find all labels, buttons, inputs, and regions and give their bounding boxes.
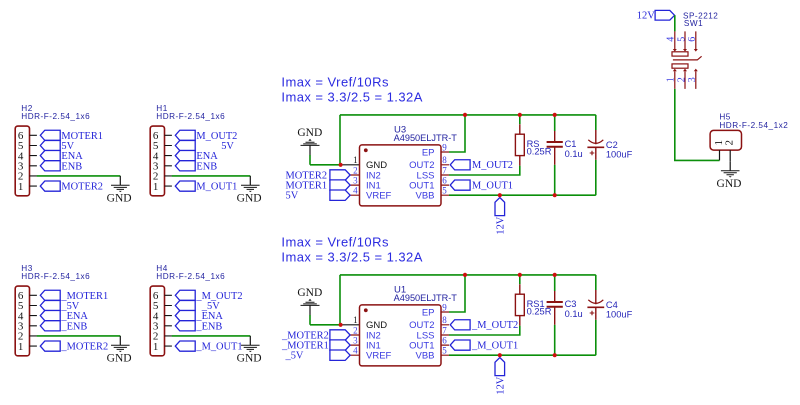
wire pin 2 to ground [172, 175, 251, 177]
svg-text:6: 6 [687, 37, 698, 42]
svg-text:3: 3 [353, 176, 358, 186]
resistor RS1 0.25R [515, 284, 551, 325]
svg-text:VBB: VBB [415, 191, 434, 202]
ground [107, 176, 132, 205]
global label _MOTER1 [281, 340, 350, 352]
wire ground to pin 1 node [310, 315, 341, 325]
global label _MOTER2 [281, 330, 350, 342]
svg-text:_ENB: _ENB [60, 321, 87, 332]
connector H3 [15, 264, 90, 356]
power label 12V input [637, 10, 675, 21]
svg-text:1: 1 [353, 315, 358, 325]
connector H2 [15, 104, 90, 196]
connector H1 [150, 104, 225, 196]
global label _ENB [40, 321, 87, 333]
wire VBB bus [449, 194, 596, 196]
svg-text:1: 1 [665, 77, 676, 82]
svg-text:4: 4 [353, 186, 358, 196]
svg-text:12V: 12V [495, 216, 506, 234]
svg-text:5V: 5V [221, 141, 234, 152]
svg-text:6: 6 [442, 176, 447, 186]
junction [553, 193, 557, 197]
svg-text:M_OUT1: M_OUT1 [196, 182, 237, 193]
global label _5V [40, 300, 79, 312]
junction [339, 163, 343, 167]
svg-text:4: 4 [353, 346, 358, 356]
svg-text:A4950ELJTR-T: A4950ELJTR-T [394, 293, 458, 303]
wire pin 2 to ground [37, 175, 121, 177]
global label MOTER1 [286, 180, 351, 192]
junction [553, 113, 557, 117]
junction [498, 353, 502, 357]
global label 5V [40, 140, 74, 152]
power label 12V [495, 198, 506, 235]
svg-text:HDR-F-2.54_1x6: HDR-F-2.54_1x6 [21, 112, 90, 121]
svg-text:_ENB: _ENB [195, 321, 222, 332]
svg-text:2: 2 [676, 77, 687, 82]
wire C top and bottom [554, 115, 556, 195]
svg-text:0.1u: 0.1u [565, 309, 583, 319]
wire 12V to switch pin 4 [674, 15, 676, 31]
svg-text:1: 1 [353, 155, 358, 165]
junction [553, 353, 557, 357]
resistor RS 0.25R [515, 124, 551, 165]
note current formula [281, 74, 422, 104]
svg-text:_5V: _5V [285, 351, 304, 362]
global label _5V [175, 300, 220, 312]
svg-text:HDR-F-2.54_1x6: HDR-F-2.54_1x6 [156, 272, 225, 281]
global label _ENB [175, 321, 222, 333]
svg-text:A4950ELJTR-T: A4950ELJTR-T [394, 133, 458, 143]
wire EP to top bus [449, 275, 465, 312]
svg-text:Imax = Vref/10Rs: Imax = Vref/10Rs [281, 234, 389, 249]
svg-text:9: 9 [442, 142, 447, 152]
global label _M_OUT1 [175, 341, 242, 353]
svg-text:0.1u: 0.1u [565, 149, 583, 159]
svg-text:12V: 12V [495, 376, 506, 394]
junction [463, 113, 467, 117]
svg-text:8: 8 [442, 155, 447, 165]
ground [297, 287, 322, 315]
svg-text:MOTER2: MOTER2 [61, 182, 103, 193]
svg-text:ENB: ENB [196, 161, 217, 172]
wire C top and bottom [554, 275, 556, 355]
global label M_OUT1 [175, 181, 237, 193]
svg-text:EP: EP [422, 147, 435, 158]
switch SW1 SP-2212 [665, 11, 718, 89]
ground [237, 176, 262, 205]
svg-text:HDR-F-2.54_1x6: HDR-F-2.54_1x6 [156, 112, 225, 121]
wire pin 2 to ground [37, 335, 121, 337]
svg-text:9: 9 [442, 302, 447, 312]
svg-text:C3: C3 [565, 299, 577, 309]
connector H5 [710, 113, 788, 162]
svg-text:0.25R: 0.25R [527, 147, 552, 157]
junction [463, 273, 467, 277]
svg-text:VREF: VREF [366, 191, 392, 202]
global label MOTER2 [40, 181, 103, 193]
svg-text:2: 2 [353, 325, 358, 335]
svg-text:5: 5 [442, 186, 447, 196]
wire right vertical [595, 115, 597, 195]
junction [553, 273, 557, 277]
wire LSS to RS [449, 326, 520, 335]
svg-text:ENB: ENB [61, 161, 82, 172]
svg-text:100uF: 100uF [606, 149, 633, 159]
svg-text:100uF: 100uF [606, 309, 633, 319]
wire ground to pin 1 node [310, 155, 341, 165]
svg-text:4: 4 [665, 37, 676, 42]
capacitor C3 0.1u [547, 291, 583, 325]
global label _MOTER2 [40, 341, 108, 353]
global label _ENA [40, 311, 88, 323]
svg-text:Imax = Vref/10Rs: Imax = Vref/10Rs [281, 74, 389, 89]
junction [518, 273, 522, 277]
svg-text:_M_OUT2: _M_OUT2 [471, 320, 518, 331]
ic U1 A4950ELJTR-T motor driver [341, 284, 458, 366]
wire RS top [519, 275, 521, 284]
global label _ENA [175, 311, 223, 323]
global label M_OUT2 [450, 160, 513, 171]
svg-text:5: 5 [676, 37, 687, 42]
svg-text:12V: 12V [637, 11, 656, 22]
capacitor C2 100uF polarized [587, 130, 632, 160]
capacitor C4 100uF polarized [587, 290, 632, 320]
svg-text:Imax = 3.3/2.5 = 1.32A: Imax = 3.3/2.5 = 1.32A [281, 90, 422, 105]
wire switch pin 1 to H5 pin 1 [675, 89, 720, 160]
svg-text:SW1: SW1 [684, 19, 703, 28]
ground [297, 127, 322, 155]
ground [717, 161, 742, 190]
svg-text:5V: 5V [286, 191, 299, 202]
junction [498, 193, 502, 197]
global label ENB [40, 161, 82, 173]
global label _M_OUT2 [175, 290, 242, 302]
svg-text:_M_OUT1: _M_OUT1 [471, 341, 518, 352]
svg-text:5: 5 [442, 346, 447, 356]
wire RS top [519, 115, 521, 124]
svg-text:8: 8 [442, 315, 447, 325]
svg-text:_MOTER2: _MOTER2 [60, 342, 108, 353]
svg-text:HDR-F-2.54_1x6: HDR-F-2.54_1x6 [21, 272, 90, 281]
global label M_OUT2 [175, 130, 237, 142]
global label M_OUT1 [450, 180, 513, 191]
wire EP to top bus [449, 115, 465, 152]
wire top bus [340, 115, 596, 165]
global label ENA [175, 151, 218, 163]
global label 5V [286, 190, 351, 202]
global label MOTER1 [40, 130, 103, 142]
svg-text:2: 2 [353, 165, 358, 175]
wire VBB bus [449, 354, 596, 356]
capacitor C1 0.1u [547, 131, 583, 165]
wire pin 2 to ground [172, 335, 251, 337]
global label _M_OUT2 [450, 320, 518, 331]
svg-text:_M_OUT1: _M_OUT1 [195, 342, 242, 353]
wire top bus [340, 275, 596, 325]
svg-text:2: 2 [724, 140, 736, 146]
ic U3 A4950ELJTR-T motor driver [341, 124, 458, 206]
svg-text:M_OUT2: M_OUT2 [472, 160, 513, 171]
svg-text:7: 7 [442, 165, 447, 175]
power label 12V [495, 358, 506, 395]
global label 5V [175, 140, 234, 152]
global label ENA [40, 151, 83, 163]
svg-text:0.25R: 0.25R [527, 307, 552, 317]
connector H4 [150, 264, 225, 356]
global label MOTER2 [286, 170, 351, 182]
global label ENB [175, 161, 217, 173]
junction [518, 113, 522, 117]
wire right vertical [595, 275, 597, 355]
global label _M_OUT1 [450, 340, 518, 351]
note current formula [281, 234, 422, 264]
svg-text:Imax = 3.3/2.5 = 1.32A: Imax = 3.3/2.5 = 1.32A [281, 250, 422, 265]
svg-text:6: 6 [442, 336, 447, 346]
global label _5V [285, 350, 351, 362]
global label _MOTER1 [40, 290, 108, 302]
svg-text:M_OUT1: M_OUT1 [472, 181, 513, 192]
svg-text:7: 7 [442, 325, 447, 335]
wire LSS to RS [449, 166, 520, 175]
svg-text:3: 3 [687, 77, 698, 82]
svg-text:EP: EP [422, 307, 435, 318]
ground [237, 336, 262, 365]
svg-text:3: 3 [353, 336, 358, 346]
junction [339, 323, 343, 327]
svg-text:VREF: VREF [366, 351, 392, 362]
svg-text:HDR-F-2.54_1x2: HDR-F-2.54_1x2 [719, 121, 788, 130]
svg-text:C1: C1 [565, 139, 577, 149]
ground [107, 336, 132, 365]
svg-text:VBB: VBB [415, 351, 434, 362]
